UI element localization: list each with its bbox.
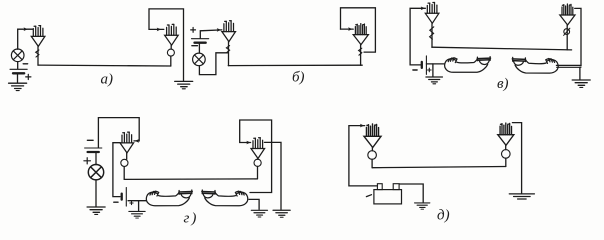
line wire a) long [38, 64, 171, 67]
arrowhead into mic (pointing right) [246, 141, 250, 145]
minus sign [114, 201, 118, 203]
squiggle on wire [36, 50, 39, 57]
microphone BM1 [31, 26, 45, 47]
line wire v) long [432, 47, 572, 50]
microphone BM10 [498, 123, 514, 145]
svg-text:а): а) [101, 72, 114, 88]
handset right g (mirrored) [202, 190, 248, 206]
wire apex down [566, 25, 568, 50]
svg-text:г): г) [184, 211, 199, 227]
battery GB3 vertical [422, 56, 427, 75]
lamp HL3 [88, 165, 103, 180]
handset left g [146, 190, 192, 206]
arrowhead into mic [217, 28, 221, 32]
loop wire right station b [341, 8, 376, 52]
terminal tab right [393, 184, 399, 190]
arrowhead into mic [24, 27, 28, 31]
line wire d) long [372, 167, 505, 168]
battery GB2 [192, 39, 209, 43]
wire lamp to ground [95, 180, 97, 207]
handset left v [445, 57, 491, 73]
ground d) right [509, 194, 534, 199]
wire down to ground [138, 201, 140, 211]
battery GB5 vertical [122, 188, 127, 207]
wire battery to handset [426, 63, 444, 65]
ground right station v [572, 80, 590, 87]
wire battery to lamp [95, 152, 97, 164]
wire down to ground [579, 67, 581, 79]
ring on cord [368, 151, 377, 160]
wire mic right to far ground [264, 142, 281, 209]
wire ring to line [257, 166, 259, 179]
arrowhead into mic [421, 7, 425, 11]
loop wire right station a [149, 9, 184, 81]
arrowhead [157, 28, 161, 32]
microphone BM8 [251, 138, 265, 159]
svg-text:б): б) [292, 70, 305, 86]
battery GB1 [10, 69, 27, 73]
wire mic top-left down to battery [349, 126, 378, 186]
svg-text:д): д) [437, 208, 450, 224]
lamp HL2 [193, 53, 206, 66]
ground d) left [415, 203, 430, 209]
ground mid-left g [129, 211, 145, 218]
wire apex to ring [126, 153, 128, 159]
loop wire right station g [240, 120, 272, 193]
wire apex to ring [170, 45, 172, 49]
wire mic apex down [228, 42, 230, 66]
wire double [557, 66, 581, 68]
ring squiggle [564, 29, 570, 35]
minus sign [23, 63, 27, 65]
wire mic left down to battery [113, 143, 120, 197]
wire battery to lamp [198, 43, 200, 53]
wire to ground [432, 64, 434, 77]
wire ring to line [123, 167, 125, 180]
battery box GB6 [374, 190, 402, 204]
minus sign [192, 45, 198, 47]
minus sign [413, 69, 417, 71]
arrowhead [348, 27, 352, 31]
wire lamp to battery [17, 62, 19, 69]
wire into mic right [149, 28, 164, 30]
wire ring to line [371, 159, 373, 167]
microphone BM9 [364, 124, 381, 148]
wire apex down to line [360, 45, 362, 66]
squiggle [226, 46, 229, 53]
microphone BM4 [353, 24, 368, 45]
wire mic top-right down to ground [512, 123, 521, 194]
wire ring to line [170, 56, 172, 66]
wire handset to ground drop [556, 64, 581, 66]
lamp HL1 [11, 49, 24, 62]
ground left station a [9, 83, 27, 90]
wire apex down [431, 23, 433, 47]
microphone BM7 [120, 132, 134, 153]
ground mid-right g [251, 210, 267, 217]
microphone BM2 [165, 24, 179, 45]
ring on cord [167, 49, 174, 56]
wire battery to handset [128, 200, 146, 202]
arrowhead into mic [360, 124, 364, 128]
loop wire left station g [98, 118, 139, 148]
minus sign slanted [366, 195, 371, 197]
terminal tab left [377, 184, 382, 190]
wire lamp to microphone [18, 29, 33, 49]
ground far-left g [87, 207, 105, 214]
wire battery top to mic [200, 30, 222, 38]
plus sign [26, 74, 31, 79]
minus sign far left [87, 139, 93, 141]
ground left station v [426, 77, 443, 84]
wire right tab to ground [399, 184, 423, 202]
plus mark [130, 201, 133, 204]
wire apex to ring [505, 145, 507, 149]
wire apex to ring [371, 148, 373, 151]
wire mic apex down [37, 46, 39, 65]
wire into mic [341, 28, 354, 30]
plus mark [428, 68, 432, 72]
squiggle long [430, 27, 434, 39]
tail [564, 28, 570, 35]
ring on cord [121, 159, 128, 166]
wire blob to ground [249, 199, 259, 209]
arrowhead into mic (pointing left) [135, 139, 139, 143]
plus sign [84, 158, 91, 164]
wire ring to line [505, 158, 507, 166]
line wire b) long [228, 64, 362, 66]
ring on cord [254, 159, 261, 166]
microphone BM3 [222, 21, 236, 42]
ground far-right g [273, 210, 290, 217]
battery GB4 [85, 148, 102, 152]
wire mic top-left and down [410, 8, 425, 65]
wire mic top-right down to handset/ground [575, 8, 581, 65]
microphone BM6 [560, 4, 575, 25]
svg-text:в): в) [497, 76, 509, 92]
line wire g) long [124, 178, 257, 181]
wire lamp bottom loop to mic cord [199, 53, 227, 75]
squiggle [359, 48, 362, 55]
handset right v (mirrored) [512, 57, 558, 73]
wire apex to ring [257, 158, 259, 161]
wire battery to ground [17, 73, 19, 82]
microphone BM5 [425, 3, 439, 24]
plus sign [191, 28, 196, 33]
ring on cord [502, 150, 511, 159]
ground right station a [175, 81, 193, 88]
